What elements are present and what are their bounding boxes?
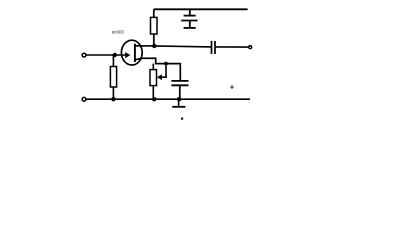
resistor R3 source resistor [150,70,157,86]
speckle dot [181,118,183,120]
terminal input [82,53,86,57]
wire R2 bottom lead [112,87,114,99]
capacitor C1 supply bypass lead [189,10,191,16]
wire R3 bottom lead [152,86,154,100]
wire top supply rail [154,8,248,10]
wire wiper lead [160,64,166,78]
resistor R1 drain resistor [151,17,158,34]
wire C3 bottom lead [179,85,181,99]
wire R1 top lead [153,9,155,17]
wire C1 bottom lead [189,21,191,28]
wire ground rail [87,98,251,100]
transistor VT1 gate arrow [125,52,130,58]
wire gate line [87,54,127,56]
transistor VT1 channel bar [134,44,136,62]
label transistor type [112,30,124,35]
capacitor C1 plate 2 [181,20,197,22]
capacitor C2 output coupling plate 2 [214,41,216,54]
node source junction [164,62,168,66]
capacitor C1 bottom bar [184,27,196,29]
wire source line [135,58,180,81]
wire R1 bottom lead [153,34,155,46]
node drain junction [152,44,156,48]
node R2 bottom junction [111,97,115,101]
capacitor C3 plate 2 [171,84,188,86]
ground stub [178,99,180,107]
wire R2 top lead [112,55,114,67]
ground bar [172,106,185,108]
wire R3 top lead [152,64,154,70]
node C3 bottom junction [177,97,181,101]
capacitor C3 plate 1 [171,80,188,82]
resistor R2 gate resistor [110,67,116,88]
resistor R3 wiper arrow [157,74,162,80]
speckle cross [230,85,234,89]
node gate junction [113,53,117,57]
transistor VT1 body circle [121,40,142,65]
wire output line [215,46,248,48]
terminal bottom left [82,97,86,101]
capacitor C2 output coupling plate 1 [211,41,213,54]
wire drain line [135,46,211,47]
capacitor C1 plate 1 [184,15,196,17]
node R3 bottom junction [152,97,156,101]
terminal output [249,46,252,49]
